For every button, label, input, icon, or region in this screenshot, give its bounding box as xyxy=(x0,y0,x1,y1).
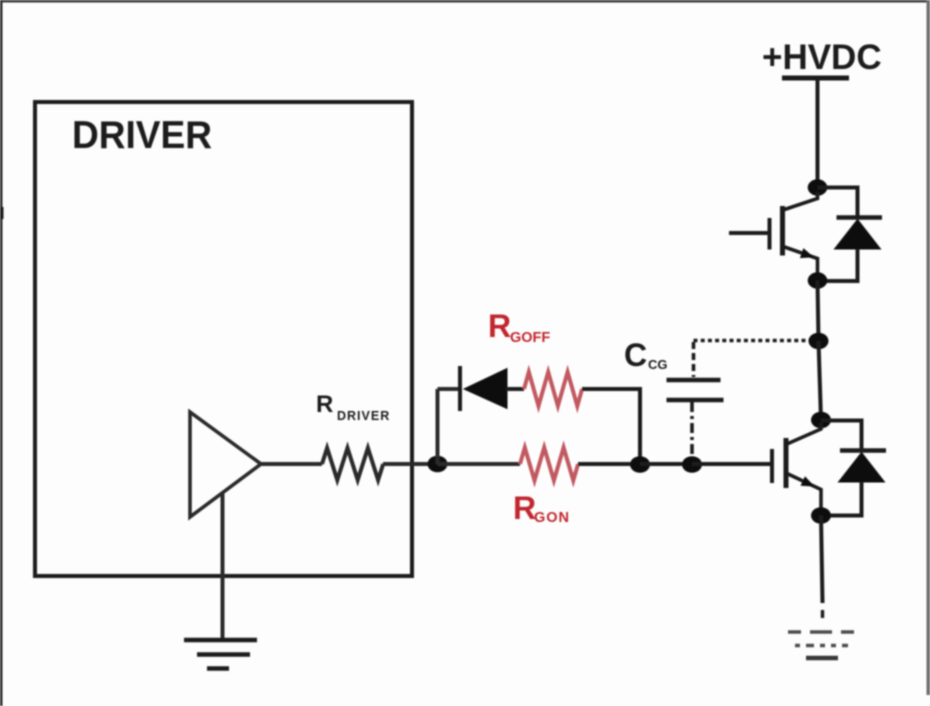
node mid (phase node) xyxy=(809,333,829,350)
cathode bar xyxy=(840,448,886,453)
node Q1 emitter xyxy=(808,272,828,288)
wire U1 to ground (driver) xyxy=(221,492,225,640)
+HVDC rail bar xyxy=(782,76,849,81)
ground (bottom, dashed) xyxy=(788,632,856,658)
svg-text:CG: CG xyxy=(648,357,668,372)
body bar xyxy=(784,438,789,488)
wire RGOFF branch left segment xyxy=(438,387,463,391)
resistor RDRIVER xyxy=(322,448,383,480)
svg-text:DRIVER: DRIVER xyxy=(337,409,390,423)
wire diode bottom to emitter node xyxy=(818,249,858,281)
wire node A to RGON xyxy=(438,462,521,466)
svg-text:GOFF: GOFF xyxy=(510,330,550,346)
wire U1 output to R_DRIVER xyxy=(261,462,322,466)
wire node B to node C xyxy=(640,462,692,466)
gate bar xyxy=(770,449,774,483)
wire Q1 emitter to mid node xyxy=(818,281,819,342)
svg-text:GON: GON xyxy=(534,510,570,526)
dashed stub above ground xyxy=(821,610,824,618)
wire RGON to node B xyxy=(578,462,640,466)
node A (junction dot) xyxy=(428,456,448,473)
wire mid node to Q2 collector node xyxy=(819,341,822,420)
node Q2 emitter xyxy=(811,507,831,524)
resistor RGOFF (red) xyxy=(524,372,582,406)
svg-text:DRIVER: DRIVER xyxy=(72,114,212,157)
diode D1 cathode bar xyxy=(458,366,462,411)
body bar xyxy=(780,206,785,256)
node C (junction dot, capacitor bottom) xyxy=(682,456,702,473)
gate bar xyxy=(768,218,772,250)
wire RDRIVER to node A xyxy=(383,462,437,466)
wire node to diode top xyxy=(818,188,858,216)
emitter slant xyxy=(785,247,818,281)
emitter arrow xyxy=(801,476,815,486)
wire node A up to RGOFF branch xyxy=(436,389,440,464)
transistor Q2 (IGBT) xyxy=(772,423,821,515)
node Q2 collector xyxy=(811,412,831,429)
svg-text:R: R xyxy=(513,490,536,526)
emitter slant xyxy=(787,474,821,516)
cathode bar xyxy=(837,215,883,220)
wire Q2 emitter down xyxy=(821,516,823,604)
gate lead xyxy=(729,231,768,235)
capacitor CCG bottom plate xyxy=(667,398,724,403)
svg-text:R: R xyxy=(316,391,333,418)
wire D1 to RGOFF xyxy=(506,387,524,391)
diode D2 (Q1 anti-parallel) xyxy=(818,188,883,282)
dash-dot wire capacitor bottom lead to node C xyxy=(690,402,694,458)
node B (junction dot) xyxy=(630,456,650,473)
driver block box xyxy=(35,102,412,576)
svg-text:+HVDC: +HVDC xyxy=(762,38,882,77)
transistor Q1 (IGBT) xyxy=(729,192,818,281)
wire diode bottom to emitter node xyxy=(821,482,862,516)
svg-text:C: C xyxy=(624,337,647,373)
wire node C to Q2 gate xyxy=(692,462,772,466)
node Q1 collector xyxy=(808,179,828,195)
ground (driver) xyxy=(184,640,257,669)
collector slant xyxy=(785,192,818,210)
svg-text:R: R xyxy=(488,308,511,344)
diode D1 (points left) xyxy=(464,369,507,409)
triangle xyxy=(839,453,885,483)
diode D3 (Q2 anti-parallel) xyxy=(821,421,886,516)
resistor RGON (red) xyxy=(520,448,578,481)
emitter arrow xyxy=(800,248,814,258)
wire node to diode top xyxy=(821,421,862,449)
op-amp buffer U1 (triangle) xyxy=(190,412,261,517)
wire right corner down to node B xyxy=(638,389,642,464)
wire rail to Q1 collector node xyxy=(816,80,820,188)
dashed wire capacitor top lead xyxy=(692,342,696,377)
capacitor CCG top plate xyxy=(667,378,721,383)
collector slant xyxy=(787,423,821,444)
triangle xyxy=(835,220,881,250)
wire RGOFF to right corner xyxy=(582,387,642,391)
dashed wire capacitor top to mid node xyxy=(694,339,817,343)
